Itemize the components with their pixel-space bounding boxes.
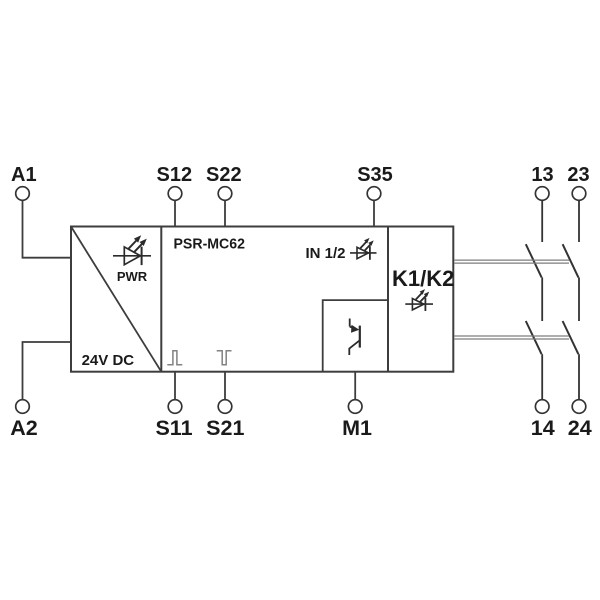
svg-text:A1: A1 xyxy=(11,164,37,186)
contact K1 path 23-24 (NO) xyxy=(563,244,579,277)
semiconductor output transistor symbol xyxy=(349,319,360,356)
contact K2 path 13-14 (NO) xyxy=(526,321,542,354)
svg-text:A2: A2 xyxy=(10,416,38,440)
wire S35 xyxy=(373,200,375,226)
svg-text:24V DC: 24V DC xyxy=(82,352,135,369)
wire S22 xyxy=(224,200,226,226)
LED PWR symbol xyxy=(113,235,151,265)
svg-text:PSR-MC62: PSR-MC62 xyxy=(174,236,246,253)
svg-text:PWR: PWR xyxy=(117,269,148,284)
wire 23-24 middle xyxy=(578,277,580,321)
pulse symbol S21 (negative pulse) xyxy=(217,351,232,365)
wire 23 upper xyxy=(578,200,580,242)
svg-text:14: 14 xyxy=(531,416,555,440)
wire S11 xyxy=(174,372,176,400)
svg-text:S21: S21 xyxy=(206,416,244,440)
contact K2 path 23-24 (NO) xyxy=(563,321,579,354)
power supply section divider xyxy=(160,227,162,372)
wire 13-14 middle xyxy=(541,277,543,321)
wire 24 lower xyxy=(578,354,580,400)
svg-text:S11: S11 xyxy=(155,416,192,440)
svg-text:K1/K2: K1/K2 xyxy=(392,266,454,291)
mechanical linkage upper (double line) xyxy=(454,260,569,263)
K1/K2 section divider xyxy=(387,227,389,372)
svg-text:13: 13 xyxy=(531,164,553,186)
wire 13 upper xyxy=(541,200,543,242)
wire M1 xyxy=(354,372,356,400)
wire S12 xyxy=(174,200,176,226)
svg-text:S12: S12 xyxy=(157,164,193,186)
main device outline box xyxy=(71,227,453,372)
wire A2 to box xyxy=(23,342,71,400)
svg-text:IN 1/2: IN 1/2 xyxy=(306,245,346,262)
svg-text:S22: S22 xyxy=(206,164,242,186)
contact K1 path 13-14 (NO) xyxy=(526,244,542,277)
LED K1/K2 symbol xyxy=(405,289,433,311)
svg-text:S35: S35 xyxy=(357,164,393,186)
wire S21 xyxy=(224,372,226,400)
wire 14 lower xyxy=(541,354,543,400)
svg-text:24: 24 xyxy=(568,416,592,440)
svg-text:M1: M1 xyxy=(342,416,372,440)
semiconductor output inner box xyxy=(323,300,388,372)
LED IN 1/2 symbol xyxy=(350,238,377,260)
power supply diagonal xyxy=(71,227,161,372)
pulse symbol S11 (positive pulse) xyxy=(167,351,182,365)
mechanical linkage lower (double line) xyxy=(454,336,569,339)
wire A1 to box xyxy=(23,200,71,257)
svg-text:23: 23 xyxy=(567,164,589,186)
